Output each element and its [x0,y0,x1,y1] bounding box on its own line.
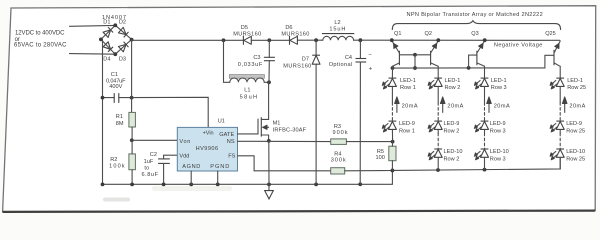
svg-text:900k: 900k [333,130,348,136]
svg-text:Row 2: Row 2 [444,156,460,162]
svg-text:D1: D1 [103,20,110,26]
svg-text:PGND: PGND [210,164,229,170]
resistor R5 [376,146,397,161]
svg-text:Von: Von [179,139,190,145]
svg-text:LED-1: LED-1 [491,78,507,84]
node Q2 rail [436,38,440,42]
IC U1 HV9906 [177,127,237,171]
LED LED-9 Row 25 [550,121,585,134]
node C1 left [101,96,105,100]
LED LED-1 Row 2 [428,78,460,91]
svg-text:LED-9: LED-9 [399,121,415,127]
wire dashed continuation col 1 [391,103,393,121]
node D7 rail [314,38,318,42]
node L1 left rail [222,38,226,42]
node C4 rail [359,38,363,42]
svg-text:15uH: 15uH [329,27,345,33]
LED LED-1 Row 25 [550,78,586,91]
wire AGND pin [190,171,192,184]
node R3 right [391,140,395,144]
svg-text:+: + [369,66,373,72]
svg-text:AGND: AGND [182,164,200,170]
wire LED-10 to rail col 25 [559,157,561,169]
svg-text:Optional: Optional [329,62,353,68]
node base bus mid [467,66,471,70]
svg-text:Row 25: Row 25 [566,156,585,162]
svg-text:C3: C3 [253,55,260,61]
svg-text:58uH: 58uH [240,94,258,100]
svg-text:to: to [144,165,149,171]
wire base Q2 [415,54,431,56]
wire Q1 diode connection [414,55,416,68]
svg-text:Q2: Q2 [425,31,432,37]
svg-text:100k: 100k [109,163,125,169]
svg-text:LED-10: LED-10 [444,149,463,155]
transistor Q3 [471,31,484,67]
svg-text:300k: 300k [331,158,346,164]
LED LED-9 Row 1 [382,121,415,134]
svg-text:Negative Voltage: Negative Voltage [494,43,543,49]
svg-text:Row 25: Row 25 [567,85,586,91]
node LED rail col2 [436,168,440,172]
svg-text:D2: D2 [119,20,126,26]
svg-text:20mA: 20mA [494,103,510,109]
svg-text:Row 25: Row 25 [566,128,585,134]
svg-text:NPN Bipolar Transistor Array o: NPN Bipolar Transistor Array or Matched … [407,12,543,18]
svg-text:LED-9: LED-9 [444,121,460,127]
node C4 ground [358,182,362,186]
LED LED-1 Row 1 [382,78,416,91]
svg-text:R4: R4 [334,151,341,157]
svg-text:65VAC to 280VAC: 65VAC to 280VAC [14,43,67,49]
svg-text:L1: L1 [244,88,250,94]
wire source to ground [268,141,270,184]
wire PGND pin [217,171,219,184]
wire dashed continuation 2 col 25 [559,133,561,149]
wire top rail right [298,39,323,41]
wire collector to LED-1 col 1 [391,66,393,78]
svg-text:LED-10: LED-10 [566,149,585,155]
wire dashed continuation col 3 [484,103,486,121]
wire R5 to LED rail [391,161,393,171]
svg-text:8M: 8M [116,121,124,127]
svg-text:MURS160: MURS160 [283,64,311,70]
svg-text:HV9906: HV9906 [196,146,219,152]
wire dashed continuation col 2 [437,103,439,121]
LED LED-10 Row 2 [428,149,462,162]
svg-text:D4: D4 [103,57,110,63]
svg-text:12VDC to 400VDC: 12VDC to 400VDC [15,31,65,37]
svg-text:Vdd: Vdd [179,153,189,159]
wire R1 to node [131,127,134,140]
wire input line 2 [70,53,116,56]
svg-text:LED-1: LED-1 [567,78,583,84]
svg-text:6.8uF: 6.8uF [142,172,159,178]
svg-text:Q25: Q25 [545,31,556,37]
current arrow 20mA col 25 [562,97,585,113]
wire LED-10 to rail col 3 [484,157,486,169]
wire LED-9 to R3 node [391,129,393,141]
svg-text:LED-1: LED-1 [400,78,416,84]
current arrow 20mA col 1 [395,97,418,113]
svg-text:1uF: 1uF [144,159,154,165]
wire LED-1 down col 25 [559,86,561,102]
node M1 source / NS [267,139,271,143]
wire LED-9 down col 3 [484,129,486,133]
node Von junction [130,138,134,142]
faint scan smudge [103,198,130,202]
node L1 right / C3 / drain [267,80,271,84]
node Q1 base junction [413,53,417,57]
LED LED-10 Row 3 [474,149,508,162]
wire LED-1 down col 1 [391,86,393,102]
node Q1 collector [391,66,395,70]
ground symbol [268,184,270,190]
node bridge left [99,38,103,42]
node R2 ground [130,182,134,186]
LED LED-9 Row 2 [428,121,459,134]
wire LED-10 to rail col 2 [437,157,439,170]
svg-text:C4: C4 [345,55,352,61]
brace over transistor array [392,21,560,30]
svg-text:LED-10: LED-10 [490,149,509,155]
node C3 rail [267,38,271,42]
svg-text:D6: D6 [285,25,292,31]
svg-text:Q1: Q1 [394,31,401,37]
svg-text:MURS160: MURS160 [281,31,309,37]
current arrow 20mA col 3 [487,97,510,113]
wire R4 to LED rail [345,170,393,172]
wire dashed continuation 2 col 2 [437,133,439,149]
svg-text:U1: U1 [218,119,225,125]
svg-text:FS: FS [228,153,235,159]
node Q3 rail [483,38,487,42]
svg-text:Row 1: Row 1 [400,85,416,91]
wire +Vin feed to U1 [132,97,209,127]
node D7 ground [314,183,318,187]
node Q1 collector bus [413,66,417,70]
LED LED-10 Row 25 [550,149,585,162]
node bridge right [130,38,134,42]
transistor Q2 [425,31,439,67]
wire Von line to U1 [132,139,178,141]
svg-text:20mA: 20mA [569,103,585,109]
ground rail [103,170,393,184]
node bridge bottom [113,52,117,56]
svg-text:100: 100 [376,155,385,161]
svg-text:Row 3: Row 3 [490,128,506,134]
svg-text:0,033uF: 0,033uF [238,62,263,68]
node LED rail col3 [483,168,487,172]
wire R3 node to R5 [391,142,393,147]
svg-text:C2: C2 [150,152,157,158]
svg-text:LED-9: LED-9 [566,121,582,127]
svg-text:Row 3: Row 3 [490,156,506,162]
wire collector to LED-1 col 25 [559,66,561,78]
svg-text:−: − [368,53,372,59]
wire top rail mid [251,39,289,41]
transistor Q1 [392,31,415,67]
wire input line 1 [70,24,116,27]
wire R3 to LED node [346,141,392,143]
wire LED-9 down col 25 [559,129,561,133]
node AGND ground [189,182,193,186]
svg-text:NS: NS [227,139,235,145]
svg-text:D5: D5 [241,25,248,31]
svg-text:LED-1: LED-1 [445,78,461,84]
node C1 right / +Vin tap [130,96,134,100]
svg-text:C1: C1 [111,72,118,78]
svg-text:+Vin: +Vin [203,130,214,136]
svg-text:Row 2: Row 2 [445,85,461,91]
wire collector to LED-1 col 2 [437,66,439,78]
wire LED-1 down col 3 [484,86,486,102]
svg-text:Q3: Q3 [471,31,478,37]
svg-text:Row 2: Row 2 [444,128,460,134]
svg-text:20mA: 20mA [447,103,463,109]
wire dashed continuation col 25 [559,103,561,121]
wire base riser Q3 [469,55,477,68]
wire R2 to ground rail [131,170,133,185]
svg-text:R1: R1 [116,114,123,120]
node LED rail R5 [391,169,395,173]
wire L1 left riser [224,40,230,82]
svg-text:20mA: 20mA [402,103,418,109]
wire base bus [393,55,555,68]
wire top rail [132,39,244,42]
svg-text:D3: D3 [119,57,126,63]
svg-text:M1: M1 [273,120,281,126]
node M1 source ground [267,182,271,186]
svg-text:R2: R2 [110,157,117,163]
wire right vertex down [131,40,133,113]
svg-text:D7: D7 [302,56,309,62]
wire NS line [238,140,331,142]
LED LED-1 Row 3 [474,78,506,91]
node PGND ground [216,182,220,186]
transistor Q25 [545,31,560,67]
node ground rail left [101,182,105,186]
node Q1 rail [390,38,394,42]
svg-text:Row 1: Row 1 [399,128,415,134]
LED LED-9 Row 3 [474,121,505,134]
wire collector to LED-1 col 3 [484,66,486,78]
svg-text:IRFBC-30AF: IRFBC-30AF [273,127,307,133]
wire LED-9 down col 2 [437,129,439,133]
wire bridge edges [101,25,132,54]
wire top rail to Q section [354,39,560,41]
wire node to R2 [131,140,133,154]
svg-text:GATE: GATE [219,132,234,138]
wire LED-1 down col 2 [437,86,439,102]
wire FS line [238,156,331,171]
svg-text:Row 3: Row 3 [491,85,507,91]
svg-text:L2: L2 [334,20,340,26]
node C2 ground [162,182,166,186]
wire dashed continuation 2 col 3 [484,133,486,149]
wire left vertex down to ground rail [102,39,104,184]
wire LED bottom rail [392,158,560,170]
svg-text:LED-9: LED-9 [490,121,506,127]
current arrow 20mA col 2 [440,97,463,113]
svg-text:MURS160: MURS160 [233,31,261,37]
node bridge top [113,23,117,27]
svg-text:400V: 400V [109,84,122,90]
